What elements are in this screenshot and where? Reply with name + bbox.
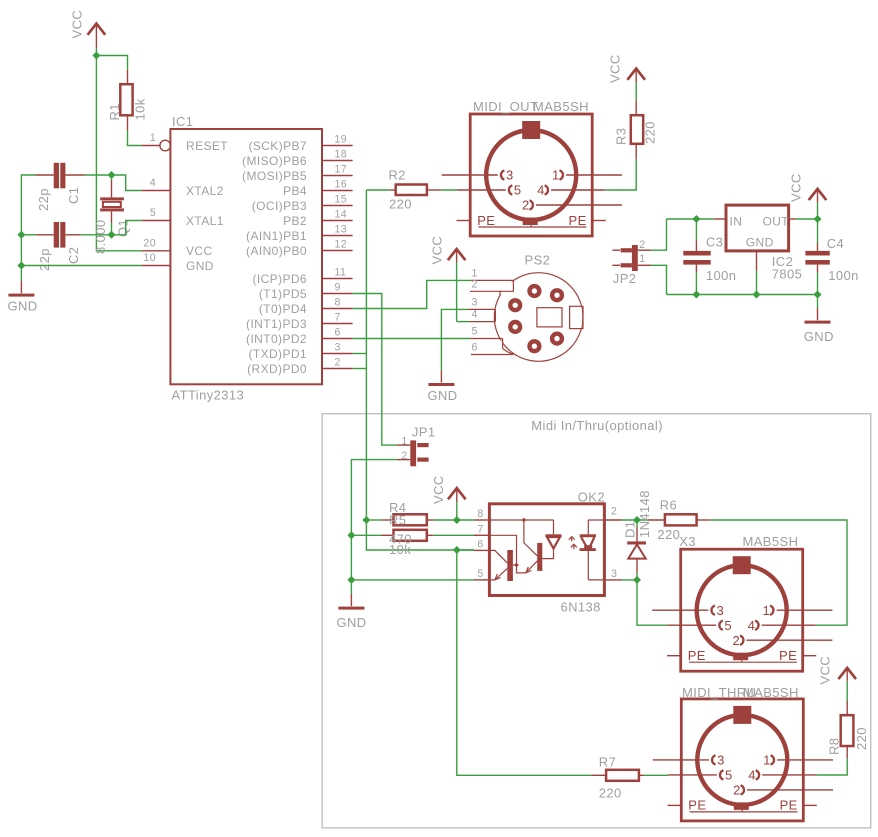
IC1 left pin names bbox=[186, 139, 228, 273]
wire R4 to OK2 pin8 bbox=[433, 519, 474, 521]
svg-text:10: 10 bbox=[143, 252, 156, 264]
voltage regulator IC2 7805 bbox=[714, 205, 803, 281]
svg-text:VCC: VCC bbox=[186, 244, 213, 258]
wire C3 top stub bbox=[695, 219, 697, 240]
svg-text:VCC: VCC bbox=[818, 656, 833, 685]
VCC symbol at OK2 bbox=[431, 475, 466, 520]
node C2 left bbox=[17, 231, 25, 239]
svg-text:(SCK)PB7: (SCK)PB7 bbox=[248, 139, 307, 153]
svg-text:(AIN0)PB0: (AIN0)PB0 bbox=[246, 244, 307, 258]
wire net to R4 bbox=[366, 519, 381, 521]
svg-text:R8: R8 bbox=[827, 738, 842, 755]
wire R2 to MIDI_OUT pin5 bbox=[441, 189, 457, 191]
svg-text:(MISO)PB6: (MISO)PB6 bbox=[242, 154, 307, 168]
wire PD5 to JP1 pin1 bbox=[353, 294, 397, 446]
resistor R1 bbox=[107, 70, 148, 131]
svg-text:C3: C3 bbox=[706, 235, 723, 250]
capacitor C3 bbox=[683, 235, 736, 283]
node net-R4 junction bbox=[362, 516, 370, 524]
svg-text:R6: R6 bbox=[660, 498, 677, 513]
svg-text:4: 4 bbox=[150, 177, 156, 189]
svg-text:(INT0)PD2: (INT0)PD2 bbox=[246, 332, 307, 346]
wire C4 top stub bbox=[817, 219, 819, 243]
svg-text:ATTiny2313: ATTiny2313 bbox=[172, 388, 245, 403]
svg-text:OK2: OK2 bbox=[578, 490, 605, 505]
node bus-C3 bbox=[692, 291, 700, 299]
svg-text:GND: GND bbox=[337, 615, 367, 630]
svg-text:R5: R5 bbox=[389, 513, 406, 528]
wire TXD link bbox=[353, 353, 367, 355]
node VCC junction bbox=[92, 52, 100, 60]
pin 1 RESET bubble bbox=[160, 140, 171, 151]
svg-text:IC1: IC1 bbox=[172, 114, 193, 129]
wire GND bus bbox=[667, 294, 818, 296]
svg-text:GND: GND bbox=[804, 329, 834, 344]
pin 2 PS2 bbox=[470, 290, 500, 292]
wire IN row bbox=[667, 218, 714, 220]
wire R1 to RESET bbox=[128, 130, 142, 145]
pin 4 XTAL2 stub bbox=[142, 190, 171, 192]
svg-text:220: 220 bbox=[389, 197, 412, 212]
svg-text:10k: 10k bbox=[389, 542, 411, 557]
svg-text:VCC: VCC bbox=[789, 173, 804, 202]
svg-text:MIDI_OUT: MIDI_OUT bbox=[473, 99, 538, 114]
diode D1 1N4148 bbox=[623, 490, 653, 580]
svg-text:(OCI)PB3: (OCI)PB3 bbox=[252, 199, 307, 213]
resistor R6 bbox=[648, 498, 711, 543]
svg-text:4: 4 bbox=[472, 309, 478, 321]
svg-text:X3: X3 bbox=[679, 534, 696, 549]
svg-text:100n: 100n bbox=[706, 268, 737, 283]
wire R5 to OK2 pin7 bbox=[433, 534, 474, 536]
svg-text:XTAL1: XTAL1 bbox=[186, 214, 224, 228]
wire GND net row5 to OK2 pin5 bbox=[351, 579, 474, 581]
wire C2 right to crystal bottom node bbox=[81, 234, 112, 236]
label R4 R5 values bbox=[389, 500, 412, 557]
resistor R2 bbox=[389, 168, 441, 212]
svg-text:14: 14 bbox=[335, 209, 348, 221]
svg-text:12: 12 bbox=[335, 239, 348, 251]
svg-text:C1: C1 bbox=[66, 187, 81, 204]
svg-text:(AIN1)PB1: (AIN1)PB1 bbox=[246, 229, 307, 243]
wire GND stem bbox=[20, 266, 22, 282]
node GND row left bbox=[17, 262, 25, 270]
pin 3 PS2 bbox=[468, 308, 495, 310]
PS2 pin numbers bbox=[472, 267, 478, 353]
svg-text:7: 7 bbox=[477, 523, 483, 535]
wire RXD link bbox=[353, 368, 367, 370]
svg-text:R3: R3 bbox=[614, 128, 629, 145]
svg-text:C2: C2 bbox=[66, 247, 81, 264]
svg-text:15: 15 bbox=[335, 194, 348, 206]
capacitor C1 bbox=[36, 163, 85, 211]
svg-text:7805: 7805 bbox=[772, 267, 803, 282]
svg-text:PS2: PS2 bbox=[525, 253, 551, 268]
svg-text:MAB5SH: MAB5SH bbox=[533, 99, 589, 114]
wire C3 bottom stub bbox=[695, 272, 697, 294]
connector X3 MAB5SH bbox=[652, 534, 832, 671]
node D1 bottom bbox=[633, 576, 641, 584]
svg-text:GND: GND bbox=[8, 299, 38, 314]
wire C2 left bbox=[21, 234, 36, 236]
wire C1 right to crystal node bbox=[85, 174, 112, 176]
IC1 right pin stubs PB7..PB0, PD6..PD0 bbox=[321, 146, 353, 369]
svg-text:11: 11 bbox=[335, 267, 347, 279]
svg-text:MAB5SH: MAB5SH bbox=[743, 534, 799, 549]
ground GND right bbox=[804, 308, 834, 344]
wire PD4 to PS2 pin1 bbox=[353, 280, 471, 308]
svg-text:VCC: VCC bbox=[430, 236, 445, 265]
svg-text:(TXD)PD1: (TXD)PD1 bbox=[248, 347, 307, 361]
wire R8 to MIDI_THRU pin4 bbox=[816, 759, 847, 775]
svg-text:GND: GND bbox=[746, 235, 774, 249]
resistor R8 bbox=[827, 701, 870, 759]
pin 4 PS2 bbox=[470, 321, 496, 323]
node GND net row5 bbox=[347, 576, 355, 584]
svg-text:220: 220 bbox=[657, 527, 680, 542]
capacitor C4 bbox=[805, 236, 858, 283]
svg-text:IN: IN bbox=[730, 215, 743, 229]
svg-text:R2: R2 bbox=[389, 168, 406, 183]
jumper JP2 bbox=[612, 239, 651, 286]
svg-text:100n: 100n bbox=[828, 268, 859, 283]
wire JP1 pin2 to GND net bbox=[351, 460, 397, 594]
pin 1 PS2 bbox=[471, 279, 514, 281]
VCC symbol top-left bbox=[70, 10, 106, 48]
node C3 top bbox=[692, 215, 700, 223]
svg-text:8.000: 8.000 bbox=[93, 219, 108, 254]
wire crystal top stub bbox=[111, 175, 113, 181]
svg-text:5: 5 bbox=[472, 326, 478, 338]
svg-text:1: 1 bbox=[401, 435, 407, 447]
svg-text:2: 2 bbox=[472, 278, 478, 290]
jumper JP1 bbox=[397, 425, 436, 467]
svg-text:10k: 10k bbox=[133, 98, 148, 120]
svg-text:(RXD)PD0: (RXD)PD0 bbox=[247, 362, 307, 376]
svg-text:8: 8 bbox=[477, 508, 483, 520]
svg-text:2: 2 bbox=[639, 239, 645, 251]
capacitor C2 bbox=[36, 222, 81, 271]
wire JP2 pin2 to IN row bbox=[651, 219, 667, 250]
wire OK2 pin3 to D1 bottom then X3 pin5 bbox=[622, 580, 668, 625]
wire OK2 pin2 to D1/R6 node bbox=[622, 519, 649, 521]
node OUT-VCC-C4 bbox=[814, 215, 822, 223]
wire PS2 pin3 to GND bbox=[441, 309, 468, 370]
wire crystal bottom stub bbox=[111, 223, 113, 235]
svg-text:VCC: VCC bbox=[431, 475, 446, 504]
svg-text:5: 5 bbox=[150, 207, 156, 219]
svg-text:6N138: 6N138 bbox=[561, 600, 601, 615]
svg-text:220: 220 bbox=[643, 121, 658, 144]
wire TXD/RXD net vertical bbox=[366, 190, 474, 550]
node GND net row7 bbox=[347, 531, 355, 539]
optocoupler OK2 6N138 bbox=[474, 490, 622, 615]
svg-text:8: 8 bbox=[335, 297, 341, 309]
wire thru net down to R7 bbox=[457, 550, 592, 775]
svg-text:VCC: VCC bbox=[608, 54, 623, 83]
svg-text:JP1: JP1 bbox=[412, 425, 436, 440]
svg-text:19: 19 bbox=[335, 134, 348, 146]
node row6 thru junction bbox=[453, 546, 461, 554]
svg-text:220: 220 bbox=[854, 727, 869, 750]
wire C4 bottom stub bbox=[817, 272, 819, 294]
svg-text:6: 6 bbox=[472, 342, 478, 354]
svg-text:2: 2 bbox=[611, 506, 617, 518]
IC1 left pin numbers bbox=[143, 132, 156, 264]
wire OUT row bbox=[796, 218, 817, 220]
IC U1 microcontroller IC1 ATTiny2313 body bbox=[170, 129, 322, 384]
svg-text:1N4148: 1N4148 bbox=[637, 490, 652, 538]
node VCC-pin8 bbox=[453, 516, 461, 524]
svg-text:R7: R7 bbox=[599, 755, 616, 770]
svg-text:GND: GND bbox=[186, 259, 214, 273]
ground GND at PS2 bbox=[428, 370, 458, 403]
svg-text:VCC: VCC bbox=[70, 10, 85, 39]
wire GND net to R5 bbox=[351, 534, 381, 536]
resistor R3 bbox=[614, 100, 658, 159]
wire IC2 GND stub bbox=[756, 271, 758, 295]
pin 5 XTAL1 stub bbox=[142, 220, 171, 222]
VCC symbol at PS2 bbox=[430, 236, 466, 322]
svg-text:2: 2 bbox=[335, 357, 341, 369]
svg-text:(T1)PD5: (T1)PD5 bbox=[259, 287, 307, 301]
svg-text:MAB5SH: MAB5SH bbox=[743, 685, 799, 700]
svg-text:3: 3 bbox=[472, 296, 478, 308]
svg-text:(INT1)PD3: (INT1)PD3 bbox=[246, 317, 307, 331]
svg-text:20: 20 bbox=[143, 237, 156, 249]
resistor R7 bbox=[592, 755, 644, 801]
svg-text:GND: GND bbox=[428, 388, 458, 403]
wire XTAL2 jog to IC pin4 bbox=[112, 175, 142, 191]
pin 5 PS2 bbox=[470, 338, 503, 340]
wire GND row to IC pin10 bbox=[21, 265, 141, 267]
svg-text:1: 1 bbox=[150, 132, 156, 144]
IC1 right pin numbers bbox=[335, 134, 348, 369]
svg-text:6: 6 bbox=[477, 538, 483, 550]
svg-text:6: 6 bbox=[335, 327, 341, 339]
node XTAL2 bbox=[108, 171, 116, 179]
svg-text:(T0)PD4: (T0)PD4 bbox=[259, 302, 307, 316]
wire R7 to MIDI_THRU pin5 bbox=[644, 774, 668, 776]
svg-text:(MOSI)PB5: (MOSI)PB5 bbox=[242, 169, 307, 183]
svg-text:C4: C4 bbox=[827, 236, 844, 251]
svg-text:3: 3 bbox=[335, 342, 341, 354]
svg-text:17: 17 bbox=[335, 164, 348, 176]
pin 20 VCC stub bbox=[142, 250, 171, 252]
svg-text:PB4: PB4 bbox=[283, 184, 307, 198]
svg-text:13: 13 bbox=[335, 224, 348, 236]
svg-text:(ICP)PD6: (ICP)PD6 bbox=[252, 272, 307, 286]
ground GND at opto bbox=[337, 594, 367, 630]
wire XTAL1 jog to IC pin5 bbox=[112, 221, 142, 235]
svg-text:OUT: OUT bbox=[763, 215, 790, 229]
svg-text:22p: 22p bbox=[37, 248, 52, 271]
svg-text:220: 220 bbox=[599, 786, 622, 801]
wire net to R2 bbox=[366, 189, 389, 191]
wire VCC to PS2 pin4 bbox=[457, 321, 470, 323]
svg-text:5: 5 bbox=[477, 568, 483, 580]
svg-text:1: 1 bbox=[639, 253, 645, 265]
svg-text:JP2: JP2 bbox=[613, 271, 637, 286]
svg-text:7: 7 bbox=[335, 312, 341, 324]
svg-text:XTAL2: XTAL2 bbox=[186, 184, 224, 198]
resistor R4 bbox=[382, 514, 434, 525]
svg-text:PB2: PB2 bbox=[283, 214, 307, 228]
svg-text:R1: R1 bbox=[107, 103, 122, 120]
svg-text:2: 2 bbox=[401, 450, 407, 462]
wire GND stem right bbox=[817, 295, 819, 309]
crystal Q1 bbox=[93, 181, 131, 255]
svg-text:22p: 22p bbox=[36, 188, 51, 211]
node bus-C4 bbox=[814, 291, 822, 299]
svg-text:9: 9 bbox=[335, 282, 341, 294]
IC1 right pin names bbox=[242, 139, 307, 376]
wire JP2 pin1 to GND bus bbox=[651, 265, 667, 294]
VCC symbol at R8 bbox=[818, 656, 857, 701]
wire C1 left bbox=[21, 175, 35, 266]
resistor R5 bbox=[382, 530, 434, 541]
wire R3 to MIDI_OUT pin4 bbox=[605, 160, 636, 190]
svg-text:Midi In/Thru(optional): Midi In/Thru(optional) bbox=[531, 418, 663, 433]
svg-text:16: 16 bbox=[335, 179, 348, 191]
node bus-IC2GND bbox=[753, 291, 761, 299]
frame Midi In/Thru(optional) bbox=[322, 414, 871, 828]
wire PD2 to PS2 pin5 bbox=[353, 338, 470, 340]
wire VCC vertical to IC pin20 bbox=[96, 48, 141, 251]
connector MIDI_THRU MAB5SH bbox=[653, 685, 833, 821]
wire R6 to X3 pin4 bbox=[711, 520, 847, 625]
svg-text:18: 18 bbox=[335, 149, 348, 161]
svg-text:3: 3 bbox=[611, 568, 617, 580]
VCC symbol at R3 bbox=[608, 54, 646, 100]
wire row6 stub to OK2 pin6 bbox=[457, 549, 474, 551]
node XTAL1 bbox=[108, 231, 116, 239]
pin 10 GND stub bbox=[142, 265, 171, 267]
node D1 top bbox=[633, 516, 641, 524]
wire VCC to R1 top bbox=[96, 56, 127, 70]
ground GND bottom-left bbox=[8, 281, 38, 314]
svg-text:D1: D1 bbox=[623, 521, 638, 538]
VCC symbol right bbox=[789, 173, 827, 219]
connector MIDI_OUT MAB5SH bbox=[442, 99, 622, 236]
pin 1 RESET stub bbox=[142, 145, 161, 147]
connector PS2 mini-DIN bbox=[494, 253, 583, 362]
pin 6 PS2 bbox=[471, 354, 514, 356]
svg-text:RESET: RESET bbox=[186, 139, 228, 153]
